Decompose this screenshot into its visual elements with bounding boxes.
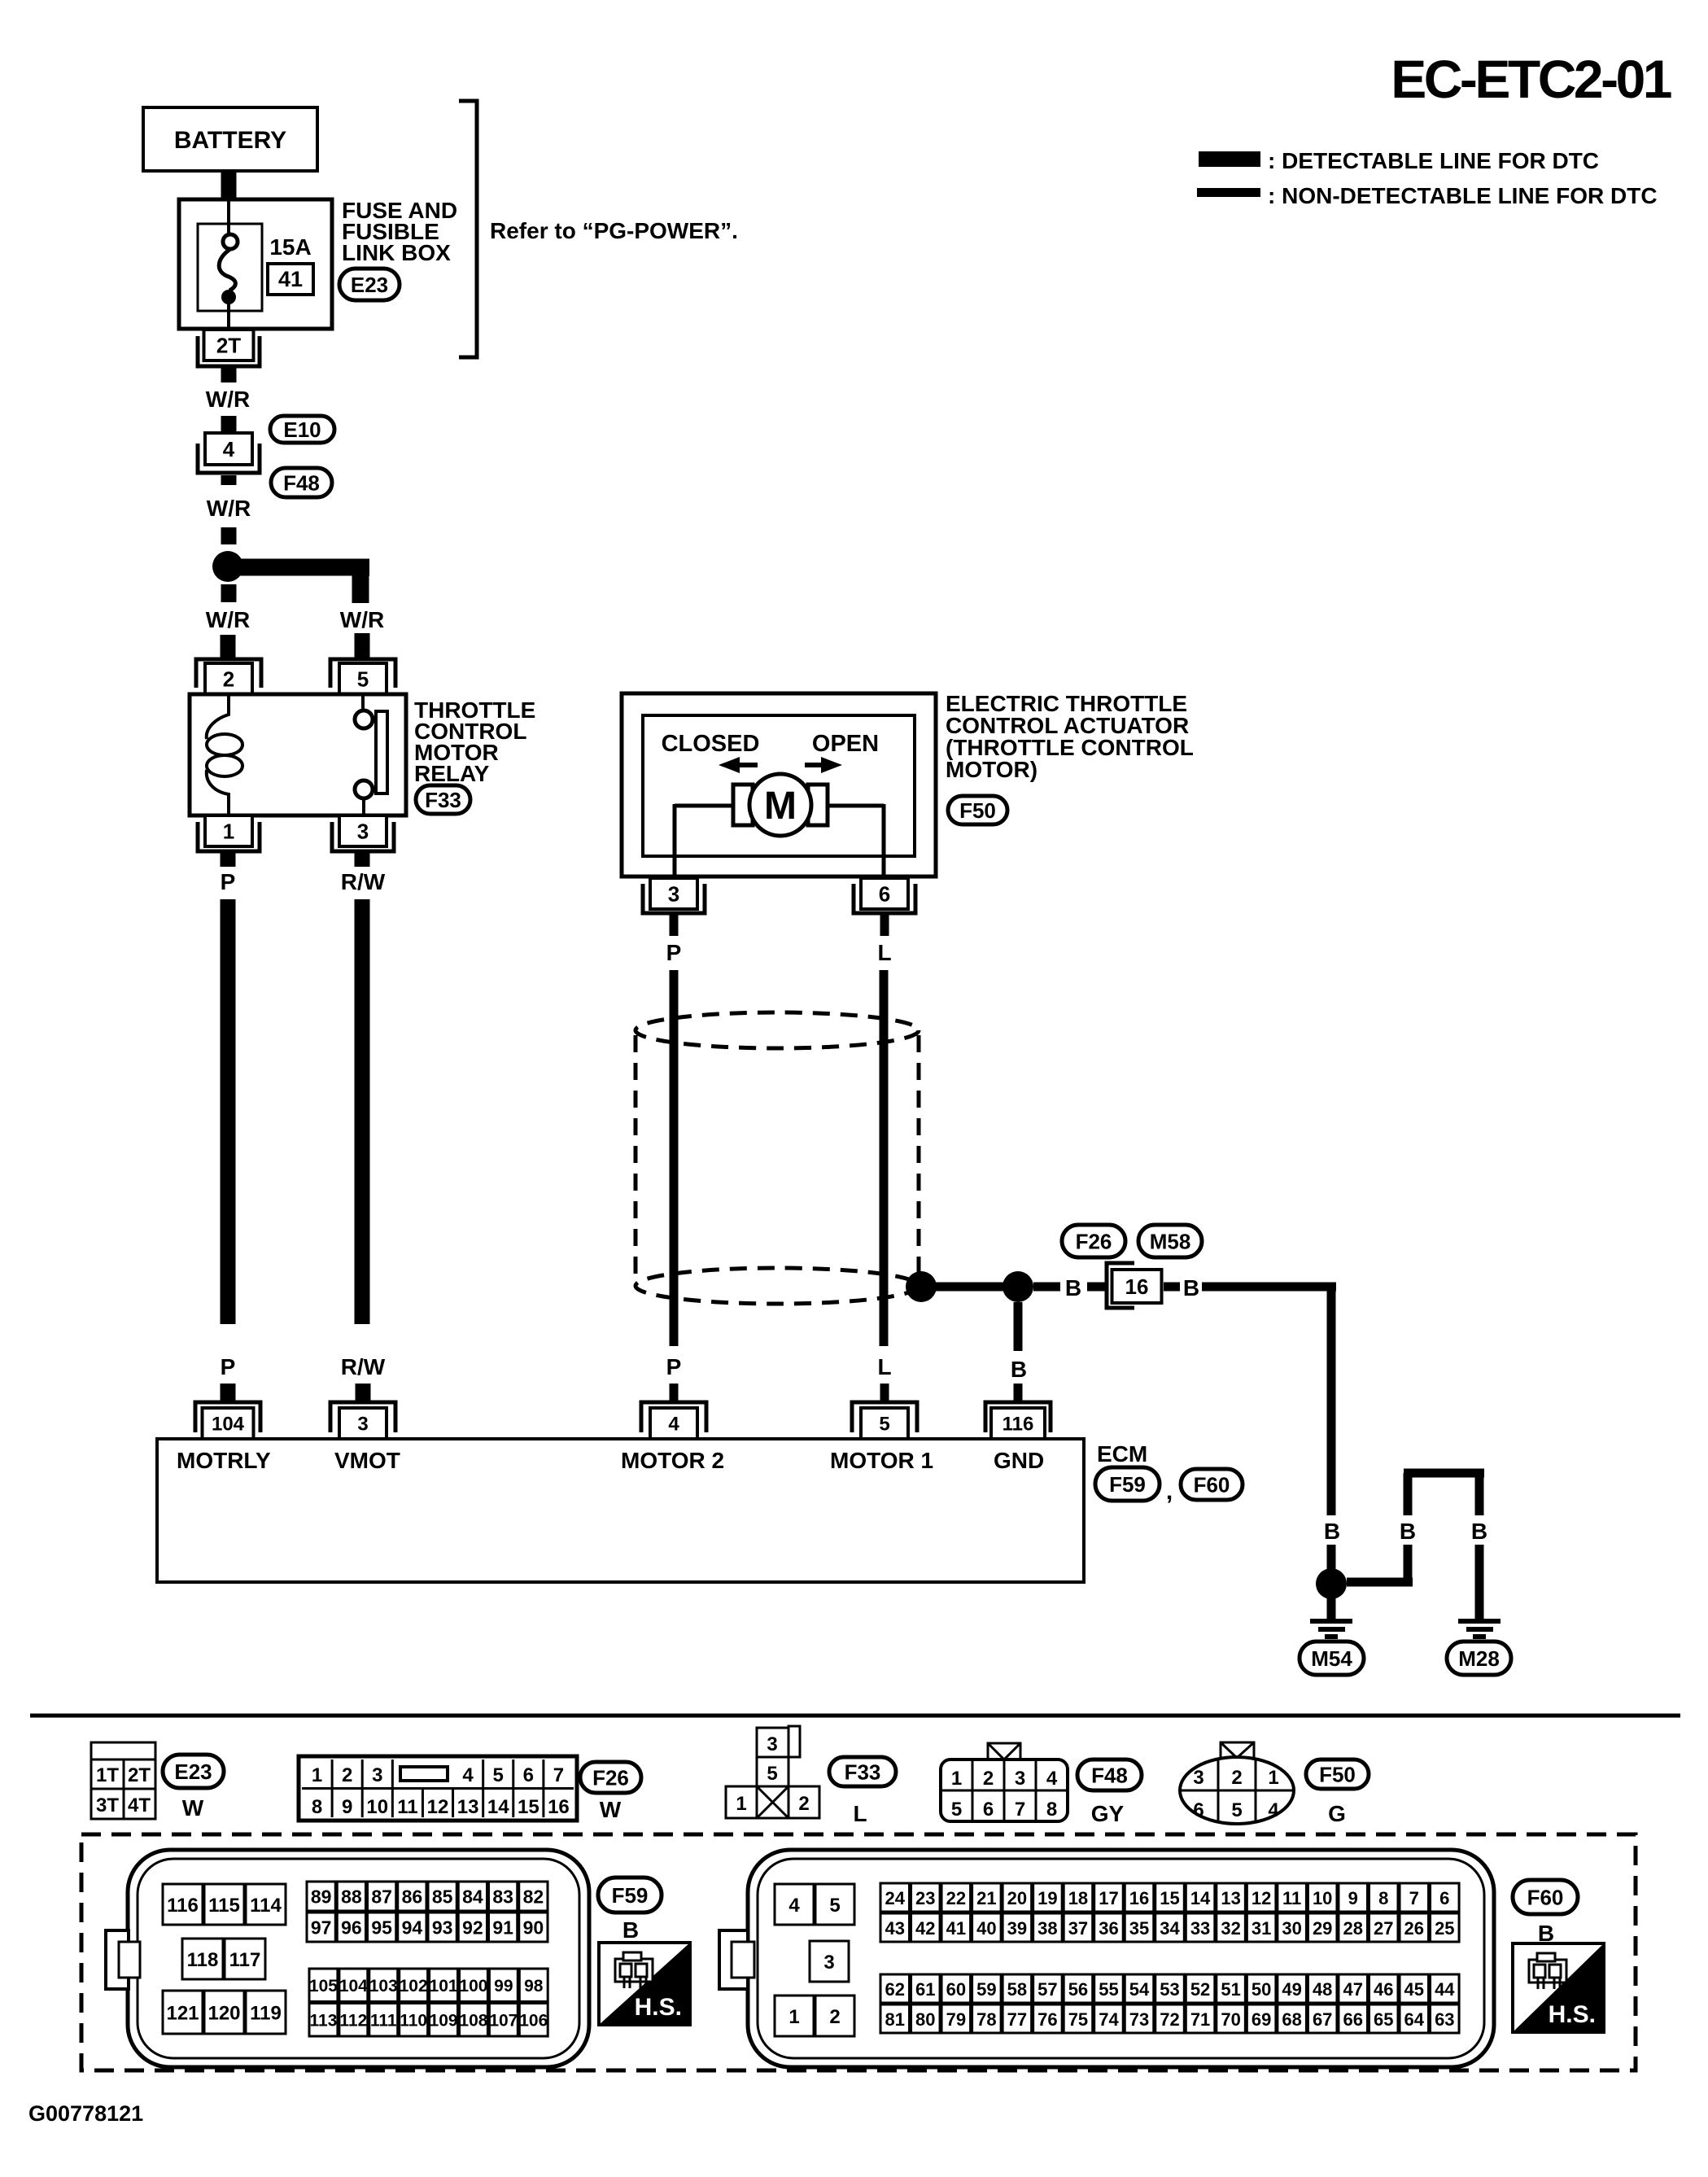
svg-text:42: 42 (915, 1918, 935, 1939)
svg-text:58: 58 (1007, 1979, 1027, 2000)
svg-text:115: 115 (208, 1895, 240, 1917)
dashed box around ECM connector faces (81, 1834, 1636, 2070)
svg-text:F33: F33 (845, 1760, 881, 1784)
relay pin 1 (198, 815, 260, 851)
svg-text:62: 62 (885, 1979, 905, 2000)
svg-text:4: 4 (788, 1895, 800, 1917)
ground ref M28 (1447, 1641, 1511, 1675)
label W/R right (340, 607, 384, 632)
svg-text:6: 6 (1193, 1799, 1203, 1821)
svg-text:5: 5 (829, 1895, 840, 1917)
throttle control motor M (733, 774, 828, 836)
svg-text:4: 4 (1268, 1799, 1279, 1821)
svg-text:F48: F48 (283, 470, 320, 495)
junction node W/R splice (212, 551, 243, 582)
svg-text:Refer to “PG-POWER”.: Refer to “PG-POWER”. (490, 218, 738, 243)
svg-text:3: 3 (1193, 1767, 1203, 1789)
junction node B splice (1003, 1271, 1033, 1302)
svg-text:GND: GND (994, 1448, 1044, 1473)
svg-text:B: B (622, 1917, 639, 1943)
label W/R left (206, 607, 250, 632)
svg-text:3: 3 (357, 819, 369, 843)
svg-text:3: 3 (1015, 1768, 1025, 1790)
svg-text:RELAY: RELAY (414, 761, 490, 786)
svg-text:72: 72 (1160, 2009, 1179, 2030)
wire P actuator to ECM (670, 970, 679, 1346)
fuse 15A No.41 symbol (198, 201, 262, 329)
svg-text:5: 5 (951, 1799, 962, 1821)
wire B out of connector 16 (1164, 1283, 1180, 1292)
svg-text:9: 9 (1348, 1888, 1358, 1908)
label R/W (341, 869, 386, 894)
wire L stub below actuator pin 6 (880, 915, 889, 936)
label ELECTRIC THROTTLE CONTROL ACTUATOR (946, 691, 1194, 782)
ECM pin 4 MOTOR 2 (641, 1402, 706, 1439)
junction node shield drain (906, 1271, 937, 1302)
connector ref M58 (1138, 1225, 1202, 1257)
svg-text:9: 9 (342, 1796, 352, 1818)
connector ref F26 (580, 1762, 641, 1793)
svg-text:41: 41 (278, 267, 303, 291)
connector pin 4 (E10/F48) (198, 433, 260, 473)
motor wire left (pin 3) (675, 804, 736, 878)
svg-text:108: 108 (459, 2012, 487, 2031)
svg-text:G: G (1328, 1801, 1346, 1826)
junction node ground splice (1316, 1568, 1347, 1599)
svg-text:46: 46 (1374, 1979, 1393, 2000)
svg-text:13: 13 (457, 1796, 479, 1818)
wire shield drain to splice (921, 1283, 1018, 1292)
svg-text:B: B (1011, 1357, 1027, 1382)
svg-text:84: 84 (462, 1886, 483, 1908)
ground ref M54 (1300, 1641, 1364, 1675)
svg-text:4: 4 (462, 1764, 474, 1786)
svg-text:OPEN: OPEN (812, 731, 879, 757)
svg-text:70: 70 (1221, 2009, 1240, 2030)
svg-text:20: 20 (1007, 1888, 1027, 1908)
svg-text:MOTOR 2: MOTOR 2 (621, 1448, 724, 1473)
svg-text:52: 52 (1190, 1979, 1210, 2000)
label MOTOR 2 (621, 1448, 724, 1473)
svg-text:14: 14 (1190, 1888, 1211, 1908)
fuse number 41 box (268, 264, 313, 295)
connector ref F50 (948, 796, 1007, 824)
svg-text:2: 2 (342, 1764, 352, 1786)
wire to ground M28 (1475, 1545, 1484, 1620)
label W (E23 color) (182, 1795, 204, 1821)
svg-text:48: 48 (1313, 1979, 1332, 2000)
svg-text:6: 6 (879, 881, 890, 906)
label L (877, 940, 891, 965)
svg-text:118: 118 (187, 1949, 219, 1971)
svg-text:4: 4 (668, 1414, 679, 1436)
connector ref F33 (829, 1757, 896, 1786)
wire B splice down to ECM GND (1014, 1302, 1023, 1351)
label P (666, 940, 682, 965)
label MOTOR 1 (830, 1448, 933, 1473)
svg-text:76: 76 (1037, 2009, 1057, 2030)
wire P stub below relay pin 1 (221, 853, 236, 867)
wire battery to fuse box (W/R detectable) (221, 169, 237, 201)
svg-text:74: 74 (1099, 2009, 1119, 2030)
wire stub into ECM 3 (356, 1384, 371, 1401)
svg-text:LINK BOX: LINK BOX (342, 240, 451, 265)
svg-text:55: 55 (1099, 1979, 1118, 2000)
svg-text:79: 79 (946, 2009, 966, 2030)
svg-text:R/W: R/W (341, 869, 386, 894)
svg-text:M28: M28 (1458, 1646, 1500, 1671)
svg-text:85: 85 (432, 1886, 453, 1908)
svg-text:1: 1 (312, 1764, 322, 1786)
svg-text:4T: 4T (128, 1794, 151, 1816)
wire W/R dash above junction (221, 527, 237, 544)
ECM pin 116 GND (985, 1402, 1051, 1439)
svg-text:1: 1 (736, 1793, 746, 1815)
svg-text:,: , (1166, 1478, 1173, 1505)
svg-text:40: 40 (976, 1918, 996, 1939)
svg-text:15: 15 (518, 1796, 539, 1818)
connector face F60 (ECM) (719, 1850, 1494, 2067)
svg-text:: DETECTABLE LINE FOR DTC: : DETECTABLE LINE FOR DTC (1268, 148, 1599, 173)
wire W/R segment above connector 4 (221, 416, 237, 434)
connector ref F48 (1077, 1760, 1142, 1790)
svg-text:119: 119 (250, 2002, 282, 2024)
svg-text:F33: F33 (425, 788, 461, 812)
wire R/W stub below relay pin 3 (355, 853, 370, 867)
label MOTRLY (177, 1448, 271, 1473)
svg-text:96: 96 (341, 1917, 362, 1939)
svg-text:G00778121: G00778121 (28, 2101, 143, 2126)
svg-text:W/R: W/R (206, 607, 250, 632)
svg-text:75: 75 (1068, 2009, 1088, 2030)
svg-text:14: 14 (487, 1796, 509, 1818)
svg-text:P: P (666, 940, 682, 965)
label ECM (1097, 1441, 1147, 1467)
svg-text:68: 68 (1282, 2009, 1301, 2030)
svg-text:10: 10 (366, 1796, 388, 1818)
svg-text:36: 36 (1099, 1918, 1118, 1939)
svg-text:B: B (1400, 1519, 1416, 1544)
note Refer to PG-POWER (490, 218, 738, 243)
svg-text:L: L (877, 1354, 891, 1379)
connector ref E10 (270, 416, 334, 443)
svg-text:100: 100 (459, 1977, 487, 1996)
svg-text:113: 113 (310, 2012, 338, 2031)
svg-text:W: W (182, 1795, 204, 1821)
label B (1011, 1357, 1027, 1382)
connector face E23 (91, 1742, 155, 1819)
svg-text:27: 27 (1374, 1918, 1393, 1939)
connector pin 2T (E23) (198, 330, 260, 366)
svg-text:3: 3 (823, 1952, 834, 1974)
svg-text:24: 24 (885, 1888, 906, 1908)
arrow open (right) (805, 757, 842, 773)
svg-text:P: P (221, 1354, 236, 1379)
svg-text:110: 110 (400, 2012, 427, 2031)
label R/W above ECM 3 (341, 1354, 386, 1379)
svg-text:5: 5 (357, 667, 369, 691)
svg-text:107: 107 (489, 2012, 518, 2031)
label B (F59 color) (622, 1917, 639, 1943)
connector ref F26 (1062, 1225, 1125, 1257)
svg-text:1T: 1T (96, 1764, 119, 1786)
svg-text:99: 99 (494, 1977, 513, 1996)
label B (1183, 1275, 1199, 1301)
label B (1400, 1519, 1416, 1544)
H.S. mark F59 (599, 1943, 690, 2025)
ECM pin 3 VMOT (330, 1402, 395, 1439)
svg-text:4: 4 (1046, 1768, 1058, 1790)
connector ref E23 (339, 269, 400, 300)
svg-text:B: B (1324, 1519, 1340, 1544)
svg-text:22: 22 (946, 1888, 966, 1908)
svg-text:7: 7 (1409, 1888, 1419, 1908)
svg-text:83: 83 (492, 1886, 513, 1908)
separator line (30, 1714, 1680, 1718)
svg-text:F26: F26 (592, 1765, 629, 1790)
relay pin 2 (196, 659, 261, 694)
connector ref F59 (1095, 1467, 1173, 1505)
svg-text:65: 65 (1374, 2009, 1393, 2030)
label B (1471, 1519, 1487, 1544)
svg-text:3T: 3T (96, 1794, 119, 1816)
wire W/R segment below 2T (221, 368, 237, 383)
label G (F50 color) (1328, 1801, 1346, 1826)
relay switch contact (355, 694, 387, 815)
label CLOSED (662, 731, 760, 757)
svg-text:47: 47 (1343, 1979, 1362, 2000)
svg-text:R/W: R/W (341, 1354, 386, 1379)
actuator pin 3 (643, 878, 705, 913)
wire P stub below actuator pin 3 (670, 915, 679, 936)
ECM body F59/F60 (157, 1439, 1084, 1582)
svg-text:90: 90 (523, 1917, 544, 1939)
svg-text:11: 11 (1282, 1888, 1301, 1908)
svg-text:W/R: W/R (340, 607, 384, 632)
label B (F60 color) (1538, 1921, 1554, 1946)
svg-text:37: 37 (1068, 1918, 1088, 1939)
ECM pin 5 MOTOR 1 (852, 1402, 917, 1439)
svg-text:109: 109 (430, 2012, 458, 2031)
svg-text:2: 2 (223, 667, 234, 691)
svg-text:104: 104 (339, 1977, 368, 1996)
svg-text:7: 7 (553, 1764, 564, 1786)
svg-text:6: 6 (983, 1799, 994, 1821)
svg-text:F50: F50 (1319, 1762, 1356, 1786)
svg-text:69: 69 (1252, 2009, 1271, 2030)
svg-text:49: 49 (1282, 1979, 1301, 2000)
svg-text:78: 78 (976, 2009, 996, 2030)
wire B into connector 16 (1087, 1283, 1105, 1292)
svg-text:W/R: W/R (206, 387, 250, 412)
svg-text:F26: F26 (1076, 1229, 1112, 1253)
fuse and fusible link box E23 (179, 199, 332, 329)
svg-text:2T: 2T (216, 333, 241, 357)
label P above ECM 4 (666, 1354, 682, 1379)
svg-text:B: B (1471, 1519, 1487, 1544)
svg-text:F50: F50 (959, 798, 996, 823)
svg-text:31: 31 (1252, 1918, 1271, 1939)
label OPEN (812, 731, 879, 757)
svg-text:82: 82 (523, 1886, 544, 1908)
svg-text:3: 3 (372, 1764, 382, 1786)
svg-text:EC-ETC2-01: EC-ETC2-01 (1391, 49, 1671, 109)
svg-text:5: 5 (767, 1763, 777, 1785)
wire B down right side (1327, 1283, 1336, 1515)
motor wire right (pin 6) (824, 804, 884, 878)
actuator pin 6 (854, 878, 915, 913)
connector face F48 (941, 1743, 1068, 1821)
wire stub into ECM 5 (880, 1384, 889, 1401)
svg-text:35: 35 (1129, 1918, 1149, 1939)
svg-text:1: 1 (788, 2006, 799, 2028)
label P (221, 869, 236, 894)
svg-text:38: 38 (1037, 1918, 1057, 1939)
label L (F33 color) (853, 1801, 867, 1826)
wire B to splice (1327, 1545, 1336, 1570)
svg-text:5: 5 (493, 1764, 504, 1786)
svg-text:67: 67 (1313, 2009, 1332, 2030)
svg-text:2: 2 (829, 2006, 840, 2028)
svg-text:16: 16 (548, 1796, 570, 1818)
svg-text:53: 53 (1160, 1979, 1179, 2000)
svg-text:59: 59 (976, 1979, 996, 2000)
svg-text:106: 106 (519, 2012, 548, 2031)
wire stub into ECM 116 (1014, 1384, 1023, 1401)
svg-text:15A: 15A (269, 234, 311, 260)
svg-text:93: 93 (432, 1917, 453, 1939)
wire to relay pin 5 (355, 633, 370, 658)
svg-text:97: 97 (311, 1917, 332, 1939)
wire to relay pin 2 (221, 635, 236, 658)
svg-text:VMOT: VMOT (334, 1448, 400, 1473)
svg-text:E23: E23 (174, 1760, 212, 1784)
svg-text:5: 5 (879, 1414, 889, 1436)
svg-text:5: 5 (1231, 1799, 1242, 1821)
svg-text:80: 80 (915, 2009, 935, 2030)
svg-text:61: 61 (915, 1979, 935, 2000)
svg-text:3: 3 (668, 881, 679, 906)
label GY (F48 color) (1091, 1801, 1125, 1826)
label VMOT (334, 1448, 400, 1473)
wire P relay to ECM (detectable) (221, 899, 236, 1324)
svg-text:MOTOR 1: MOTOR 1 (830, 1448, 933, 1473)
svg-text:ECM: ECM (1097, 1441, 1147, 1467)
svg-text:10: 10 (1313, 1888, 1332, 1908)
svg-text:23: 23 (915, 1888, 935, 1908)
connector ref F50 (1306, 1760, 1369, 1789)
svg-text:25: 25 (1435, 1918, 1454, 1939)
relay pin 5 (330, 659, 395, 694)
svg-text:3: 3 (767, 1733, 777, 1755)
svg-text:B: B (1065, 1275, 1081, 1301)
wire stub into ECM 104 (221, 1384, 236, 1401)
svg-text:32: 32 (1221, 1918, 1240, 1939)
svg-text:L: L (877, 940, 891, 965)
svg-text:11: 11 (397, 1796, 417, 1818)
connector ref F59 (598, 1878, 662, 1913)
svg-text:112: 112 (339, 2012, 367, 2031)
connector ref E23 (163, 1755, 224, 1788)
legend: detectable line for DTC (1199, 148, 1599, 173)
svg-text:21: 21 (976, 1888, 996, 1908)
label W/R (206, 387, 250, 412)
arrow closed (left) (719, 757, 758, 773)
wire splice to ground M54 (1327, 1598, 1336, 1620)
svg-text:95: 95 (371, 1917, 392, 1939)
svg-text:F59: F59 (612, 1883, 649, 1908)
svg-text:103: 103 (369, 1977, 398, 1996)
svg-text:2: 2 (798, 1793, 809, 1815)
svg-text:77: 77 (1007, 2009, 1027, 2030)
svg-text:MOTRLY: MOTRLY (177, 1448, 271, 1473)
ground symbol M28 (1458, 1621, 1501, 1637)
svg-text:1: 1 (1268, 1767, 1278, 1789)
svg-text:51: 51 (1221, 1979, 1240, 2000)
svg-text:57: 57 (1037, 1979, 1057, 2000)
svg-text:105: 105 (309, 1977, 338, 1996)
svg-text:114: 114 (250, 1895, 282, 1917)
svg-text:W/R: W/R (207, 496, 251, 521)
svg-text:50: 50 (1252, 1979, 1271, 2000)
svg-text:CLOSED: CLOSED (662, 731, 760, 757)
battery (143, 107, 317, 171)
svg-text:91: 91 (492, 1917, 513, 1939)
svg-text:89: 89 (311, 1886, 332, 1908)
svg-text:P: P (221, 869, 236, 894)
svg-text:8: 8 (1378, 1888, 1388, 1908)
ground symbol M54 (1310, 1621, 1352, 1637)
svg-text:63: 63 (1435, 2009, 1454, 2030)
svg-text:92: 92 (462, 1917, 483, 1939)
svg-text:71: 71 (1190, 2009, 1210, 2030)
svg-text:64: 64 (1404, 2009, 1425, 2030)
svg-text:101: 101 (430, 1977, 458, 1996)
svg-text:81: 81 (885, 2009, 905, 2030)
label B (1065, 1275, 1081, 1301)
svg-text:120: 120 (207, 2002, 240, 2024)
svg-text:16: 16 (1129, 1888, 1149, 1908)
wire W/R segment below connector 4 (221, 475, 237, 485)
svg-text:E10: E10 (283, 417, 321, 442)
svg-text:H.S.: H.S. (635, 1994, 682, 2021)
svg-text:4: 4 (223, 437, 235, 461)
svg-text:73: 73 (1129, 2009, 1149, 2030)
svg-text:121: 121 (166, 2002, 199, 2024)
connector ref F48 (271, 468, 332, 497)
svg-text:12: 12 (1252, 1888, 1271, 1908)
svg-text:102: 102 (400, 1977, 428, 1996)
H.S. mark F60 (1513, 1943, 1604, 2032)
svg-text:29: 29 (1313, 1918, 1332, 1939)
relay pin 3 (332, 815, 394, 851)
connector ref F33 (416, 785, 470, 814)
wire branch to relay pin 5 (236, 559, 369, 604)
svg-text:15: 15 (1160, 1888, 1179, 1908)
svg-text:B: B (1183, 1275, 1199, 1301)
label P above ECM 104 (221, 1354, 236, 1379)
connector face F50 (1180, 1742, 1294, 1824)
svg-text:6: 6 (523, 1764, 534, 1786)
wire stub into ECM 4 (670, 1384, 679, 1401)
throttle control motor relay F33 body (190, 694, 406, 815)
svg-text:30: 30 (1282, 1918, 1301, 1939)
svg-text:116: 116 (1003, 1414, 1034, 1436)
svg-text:L: L (853, 1801, 867, 1826)
wire L actuator to ECM (880, 970, 889, 1346)
svg-text:GY: GY (1091, 1801, 1125, 1826)
svg-text:34: 34 (1160, 1918, 1180, 1939)
